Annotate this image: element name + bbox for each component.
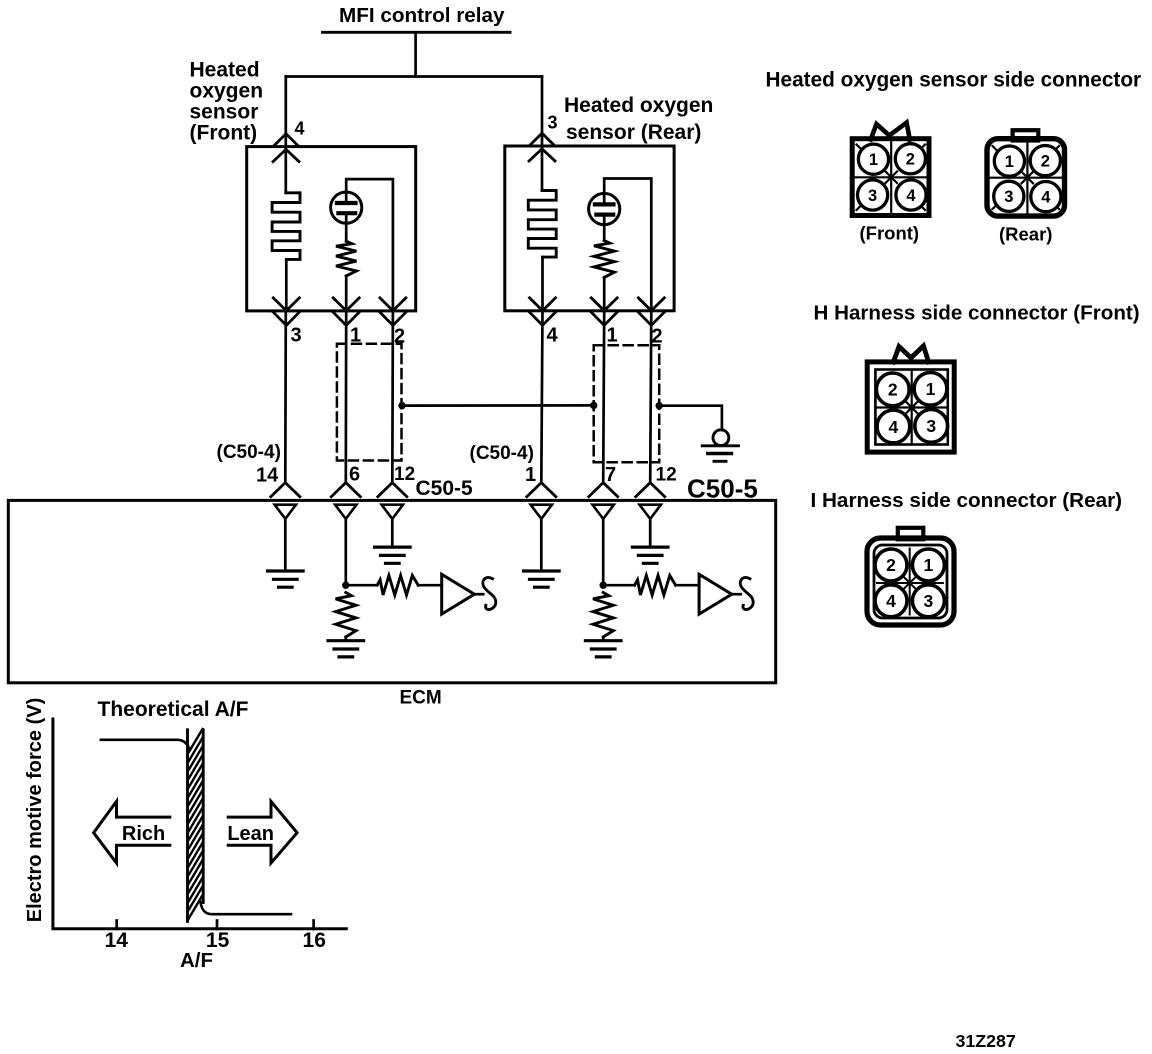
graph stoichiometric band left edge [186,730,189,922]
ECM rear sensor-ground wire [540,519,543,571]
H connector outer body [867,362,954,452]
band hatching [188,729,202,753]
svg-text:(C50-4): (C50-4) [470,443,534,464]
svg-text:3: 3 [868,187,877,205]
ECM front amplifier [442,574,475,614]
H connector cavity 2 [876,373,909,406]
svg-text:A/F: A/F [180,949,213,972]
svg-text:31Z287: 31Z287 [956,1031,1016,1051]
svg-text:Rich: Rich [122,823,165,845]
I connector outer body [867,538,954,625]
I connector cavity 4 [875,585,907,617]
svg-text:1: 1 [924,555,934,575]
front cell top link wire [346,179,393,311]
svg-text:4: 4 [889,417,899,437]
svg-text:3: 3 [926,416,936,436]
ECM rear pull-down ground wire [602,637,605,640]
H connector cavity 4 [877,410,910,443]
ECM rear signal junction [600,582,607,589]
connector arrow rear pin 4 [530,298,556,311]
svg-text:Heated oxygen sensor side conn: Heated oxygen sensor side connector [766,69,1142,92]
graph curve rich plateau [101,740,190,750]
svg-text:2: 2 [906,151,915,169]
wire to front sensor pin 4 [284,77,287,147]
junction node on rear shield left [590,402,597,409]
svg-text:12: 12 [394,464,415,485]
ECM connector fork front pin 12 [378,483,407,497]
rear heater element [528,191,556,258]
svg-text:16: 16 [303,929,326,952]
axis tick 15 [216,921,219,930]
svg-text:3: 3 [924,591,934,611]
ECM front wire to amplifier [418,584,442,587]
svg-text:Lean: Lean [227,823,274,845]
front sensor cell [331,192,362,223]
connector arrow front pin 2 [380,298,406,311]
H connector inner body [875,370,947,445]
svg-text:I Harness side connector (Rear: I Harness side connector (Rear) [811,489,1123,512]
rear sensor connector cavity 4 [1031,182,1061,212]
svg-text:2: 2 [888,380,898,400]
ECM rear pull-down ground [585,639,621,642]
ECM rear series resistor [635,575,676,595]
rear sensor connector grid [1026,143,1028,213]
svg-text:Heated: Heated [190,59,260,82]
shield link wire front-rear [402,404,594,407]
rear shield (dashed) [594,345,660,462]
rear sensor cell [589,193,620,224]
svg-text:H Harness side connector (Fron: H Harness side connector (Front) [814,302,1140,325]
ECM front signal wire [344,519,347,585]
svg-text:2: 2 [886,555,896,575]
svg-text:2: 2 [1041,153,1050,171]
ECM box [8,500,775,682]
front heated oxygen sensor box [247,147,416,311]
graph curve lean plateau [201,902,291,914]
I connector cavity 1 [912,549,944,581]
front sensor internal resistor [336,241,356,276]
svg-text:MFI control relay: MFI control relay [339,4,505,27]
wire front pin2 to ECM pin12 [391,311,394,483]
svg-text:Heated oxygen: Heated oxygen [564,94,713,117]
svg-text:12: 12 [656,465,677,486]
svg-text:1: 1 [525,464,536,486]
connector arrow front pin 3 [273,298,299,311]
wire front pin3 to ECM pin14 [284,311,287,483]
svg-text:6: 6 [349,464,360,486]
connector arrow rear pin 3 [530,133,555,145]
svg-text:3: 3 [291,325,302,347]
svg-text:(C50-4): (C50-4) [217,442,281,463]
ECM rear sensor ground [524,569,560,572]
connector arrow rear pin 2 [638,298,664,311]
ECM front pull-down ground [328,639,364,642]
svg-text:4: 4 [886,591,896,611]
svg-text:(Front): (Front) [190,122,258,145]
svg-text:Theoretical A/F: Theoretical A/F [98,698,249,721]
rear heater wire bottom [541,257,544,311]
ECM rear wire to series resistor [603,584,634,587]
connector arrow rear pin 1 [591,298,617,311]
ECM pin triangle pin 1 [531,505,552,519]
rear heated oxygen sensor box [505,146,674,311]
H connector cavity 1 [914,372,947,405]
I connector inner body [874,545,947,618]
ECM rear amplifier [699,574,732,614]
svg-text:(Front): (Front) [860,223,920,244]
rear sensor connector cavity 1 [994,146,1024,176]
svg-text:4: 4 [1041,189,1051,207]
svg-text:oxygen: oxygen [190,80,264,103]
ECM pin triangle rear pin 12 [640,505,661,519]
shield ground wire [659,406,722,430]
Lean arrow [228,801,297,863]
svg-text:14: 14 [256,465,279,487]
MFI control relay bus line [323,31,511,34]
junction node on front shield [398,402,405,409]
rear heater wire top [541,146,544,191]
front sensor connector cavity 4 [896,180,926,210]
ECM connector fork pin 1 [527,483,556,497]
ECM rear wire to amplifier [676,584,700,587]
wire to rear sensor pin 3 [541,77,544,147]
ECM rear shield ground [632,545,668,548]
wire branch horizontal [286,75,542,78]
ECM rear shield wire [649,519,652,547]
front heater wire bottom [285,259,288,311]
svg-text:ECM: ECM [400,688,442,709]
rear sensor connector cavity 3 [994,181,1024,211]
ECM front signal junction [342,582,349,589]
wire rear pin2 to ECM pin12 [650,311,651,483]
I connector grid [909,549,911,615]
ECM front pull-down resistor [336,593,356,638]
svg-text:sensor: sensor [190,101,259,124]
svg-text:Electro motive force (V): Electro motive force (V) [24,698,46,923]
ECM connector fork pin 14 [271,483,300,497]
ECM front pull-down ground wire [344,637,347,640]
svg-text:1: 1 [607,325,618,347]
rear cell top link wire [604,179,651,311]
H connector latch [893,346,928,362]
svg-text:4: 4 [906,187,916,205]
ECM connector fork pin 6 [331,483,360,497]
front heater wire top [284,147,287,193]
ECM front sensor ground [268,569,304,572]
ECM front wire to series resistor [346,584,377,587]
H connector grid [911,372,913,444]
svg-text:1: 1 [1005,153,1014,171]
ECM pin triangle pin 7 [593,505,614,519]
rear resistor lower wire [603,278,606,311]
axis tick 16 [312,921,315,930]
ECM front sensor-ground wire [284,519,287,571]
rear sensor connector cavity 2 [1030,146,1060,176]
rear sensor connector body [987,139,1065,216]
ECM front series resistor [377,575,418,595]
junction node on rear shield right [656,402,663,409]
rear cell lower wire [603,224,606,241]
connector arrow front pin 4 [274,134,299,146]
ECM rear signal wire [602,519,605,585]
ECM connector fork pin 7 [589,483,618,497]
svg-text:4: 4 [547,325,559,347]
front sensor connector grid [890,142,892,214]
wire front pin1 to ECM pin6 [344,311,347,483]
graph stoichiometric band right edge [202,730,205,903]
ECM pin triangle front pin 12 [382,505,403,519]
svg-text:14: 14 [105,929,129,952]
wire rear pin4 to ECM pin1 [541,311,542,483]
svg-text:3: 3 [1004,188,1013,206]
ECM connector fork rear pin 12 [636,483,665,497]
graph Y axis [53,719,346,929]
svg-text:(Rear): (Rear) [999,224,1052,245]
ECM rear pull-down resistor [593,593,613,638]
wire from MFI relay down [414,32,417,76]
ECM pin triangle pin 14 [275,505,296,519]
I connector cavity 3 [912,585,944,617]
front sensor connector cavity 2 [895,144,925,174]
front sensor connector cavity 3 [858,180,888,210]
front heater element [272,193,300,260]
svg-text:7: 7 [605,464,616,486]
Rich arrow [94,801,170,863]
ECM front shield ground [375,545,411,548]
I connector tab [898,528,924,540]
front shield (dashed) [337,344,402,461]
rear sensor internal resistor [594,241,614,278]
rear sensor connector tab [1013,130,1039,140]
ECM pin triangle pin 6 [335,505,356,519]
connector arrow front pin 1 [333,298,359,311]
ECM front shield wire [391,519,394,547]
H connector cavity 3 [915,410,948,443]
svg-text:sensor (Rear): sensor (Rear) [566,121,701,144]
front sensor connector cavity 1 [858,144,888,174]
svg-text:C50-5: C50-5 [416,477,474,500]
svg-text:1: 1 [926,379,936,399]
axis tick 14 [115,921,118,930]
front cell lower wire [345,222,348,241]
I connector cavity 2 [875,549,907,581]
body ground symbol [713,430,729,446]
svg-text:3: 3 [548,113,558,133]
svg-text:4: 4 [295,119,305,139]
front resistor lower wire [345,276,348,311]
wire rear pin1 to ECM pin7 [603,311,604,483]
front sensor connector latch [871,123,910,140]
front sensor connector body [852,139,929,216]
svg-text:1: 1 [869,151,878,169]
